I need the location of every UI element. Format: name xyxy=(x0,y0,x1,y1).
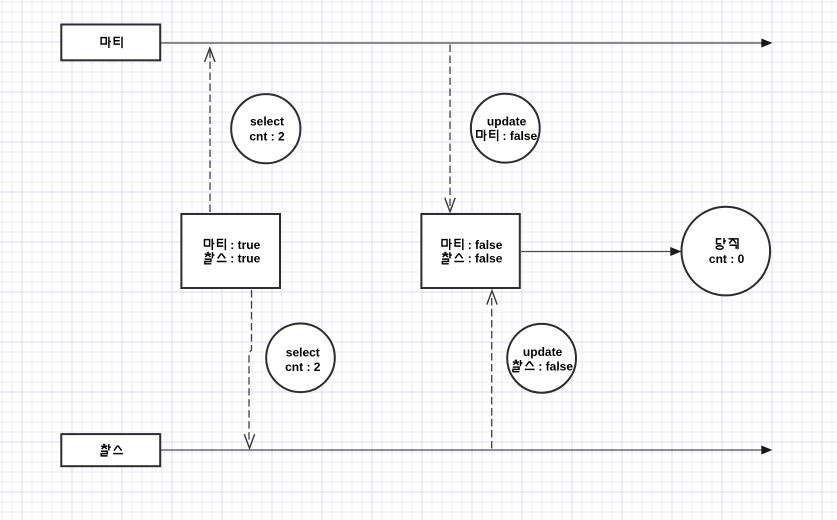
svg-text:: false: : false xyxy=(538,359,573,373)
svg-text:: true: : true xyxy=(230,238,260,252)
node: actor box 찰스 xyxy=(61,434,160,466)
node: state box 마티:true 찰스:true xyxy=(181,214,280,288)
node: circle select cnt:2 (top) xyxy=(231,94,300,163)
node: actor box 마티 xyxy=(61,25,160,61)
svg-text:cnt : 0: cnt : 0 xyxy=(709,252,745,266)
wire: bottom lifeline 찰스 xyxy=(161,449,762,451)
svg-text:update: update xyxy=(487,115,527,129)
wire: dashed arrow update-up (bottom lifeline to state2) xyxy=(491,295,493,449)
node: circle update 마티:false xyxy=(471,94,540,163)
wire: top lifeline 마티 xyxy=(161,42,762,44)
svg-text:: false: : false xyxy=(503,129,538,143)
svg-text:select: select xyxy=(250,115,284,129)
svg-text:: false: : false xyxy=(468,251,503,265)
node: circle update 찰스:false xyxy=(507,324,576,393)
svg-text:cnt : 2: cnt : 2 xyxy=(249,129,285,143)
svg-text:cnt : 2: cnt : 2 xyxy=(285,360,321,374)
node: circle select cnt:2 (bottom) xyxy=(266,324,335,393)
svg-text:update: update xyxy=(523,345,563,359)
svg-text:: false: : false xyxy=(468,238,503,252)
wire: solid arrow state2 to 당직 xyxy=(521,251,671,253)
svg-text:select: select xyxy=(286,346,320,360)
wire: dashed arrow select-up (state1 to top lifeline) xyxy=(209,47,211,212)
svg-text:: true: : true xyxy=(230,251,260,265)
node: circle 당직 cnt:0 xyxy=(682,207,771,296)
wire: dashed arrow update-down (top lifeline to state2) xyxy=(449,45,451,212)
wire: dashed arrow select-down (state1 to bottom lifeline) xyxy=(249,290,252,443)
node: state box 마티:false 찰스:false xyxy=(421,214,519,288)
